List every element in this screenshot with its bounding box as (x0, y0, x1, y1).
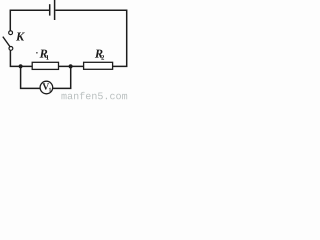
switch K top terminal (9, 31, 13, 35)
battery short plate (negative) (49, 4, 51, 15)
wire junction left down to voltmeter (21, 66, 40, 88)
label R2 (95, 50, 103, 58)
node junction left (dot) (19, 64, 23, 68)
watermark manfen5.com (61, 92, 127, 99)
wire top-left corner (switch to battery) (10, 10, 49, 30)
resistor R2 (84, 62, 113, 69)
wire battery to top-right corner, down right side, to R2 (55, 10, 126, 66)
resistor R1 (32, 62, 58, 69)
wire R1 to R2 (59, 65, 84, 67)
label K (16, 33, 25, 41)
voltmeter V1 (40, 81, 53, 94)
label R1 (40, 50, 48, 58)
stray mark left of R1 label (36, 52, 38, 54)
switch K bottom terminal (9, 47, 13, 51)
switch K blade (3, 37, 10, 47)
wire voltmeter up to junction right (53, 66, 71, 88)
wire switch down to left corner and to R1 (10, 50, 32, 66)
battery long plate (positive) (54, 0, 56, 20)
node junction right (dot) (69, 64, 73, 68)
